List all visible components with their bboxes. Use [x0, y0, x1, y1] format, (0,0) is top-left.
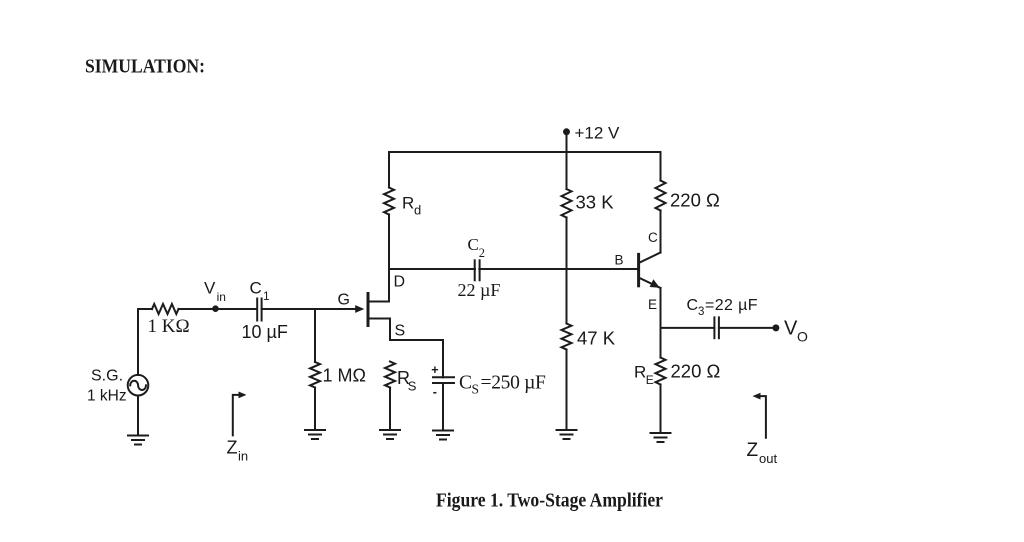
svg-text:D: D	[394, 274, 406, 291]
svg-text:E: E	[648, 297, 657, 312]
svg-text:3: 3	[698, 306, 704, 318]
node Vin dot	[212, 305, 219, 312]
resistor 1 MOhm	[310, 362, 320, 388]
transistor Q2 base bar	[637, 254, 640, 285]
emitter diagonal	[639, 278, 661, 289]
svg-text:R: R	[402, 194, 414, 213]
ground at 47K	[557, 430, 577, 439]
svg-text:C: C	[687, 297, 699, 314]
wire Rd to D node	[388, 215, 390, 270]
wire Cs branch	[442, 340, 444, 377]
svg-text:2: 2	[479, 246, 485, 260]
wire S.G. to 1K resistor	[138, 309, 152, 375]
svg-text:22 µF: 22 µF	[458, 280, 501, 300]
1 MOhm branch wire	[314, 309, 316, 362]
JFET drain lead	[368, 269, 389, 302]
svg-text:E: E	[646, 373, 654, 387]
svg-text:S: S	[472, 382, 480, 397]
svg-text:G: G	[338, 292, 350, 309]
wire rail to 220 ohm	[660, 152, 662, 181]
svg-text:V: V	[784, 318, 798, 340]
svg-text:1 KΩ: 1 KΩ	[148, 316, 190, 337]
svg-text:C: C	[459, 373, 472, 394]
resistor Rd	[384, 188, 394, 215]
wire RE to ground	[660, 385, 662, 434]
svg-text:in: in	[238, 449, 248, 464]
svg-text:C: C	[250, 279, 262, 298]
svg-text:Z: Z	[747, 440, 759, 461]
svg-text:B: B	[615, 253, 624, 268]
resistor 47K	[562, 324, 572, 350]
wire Rs to ground	[389, 388, 391, 431]
resistor Rs	[385, 362, 395, 388]
svg-text:1 MΩ: 1 MΩ	[323, 366, 366, 386]
resistor 220 ohm collector	[656, 181, 666, 211]
wire 1M to ground	[314, 388, 316, 431]
resistor 1 KOhm (horizontal)	[152, 304, 179, 314]
+12V node dot	[563, 128, 570, 135]
wire D node to C2	[389, 268, 475, 270]
svg-text:out: out	[759, 451, 777, 466]
wire 47K to ground	[566, 350, 568, 431]
resistor Rd branch from rail	[388, 152, 390, 188]
wire C2 to BJT base	[479, 268, 637, 270]
svg-text:Figure 1. Two-Stage Amplifier: Figure 1. Two-Stage Amplifier	[436, 490, 663, 512]
wire C1 to JFET gate	[262, 308, 356, 310]
ground at S.G.	[128, 436, 148, 445]
resistor 33K	[562, 189, 572, 218]
svg-text:220 Ω: 220 Ω	[671, 361, 721, 382]
+12V stub	[566, 132, 568, 152]
svg-text:47 K: 47 K	[577, 328, 616, 349]
ground at RE	[651, 433, 671, 442]
wire 1K to C1	[179, 308, 258, 310]
svg-text:33 K: 33 K	[576, 192, 615, 213]
svg-text:=250 µF: =250 µF	[481, 373, 547, 394]
svg-text:1 kHz: 1 kHz	[87, 388, 127, 405]
svg-text:+12 V: +12 V	[575, 123, 621, 142]
ground at Rs	[380, 430, 400, 439]
capacitor Cs plates	[433, 377, 454, 383]
resistor RE	[656, 358, 666, 385]
top rail +12V	[389, 151, 661, 153]
svg-text:in: in	[217, 290, 226, 304]
svg-text:S: S	[408, 379, 417, 394]
svg-text:1: 1	[263, 289, 270, 303]
svg-text:220 Ω: 220 Ω	[670, 190, 720, 211]
wire S.G. bottom to ground	[137, 396, 139, 436]
svg-text:V: V	[204, 279, 216, 298]
wire emitter to output node	[660, 288, 662, 358]
svg-text:SIMULATION:: SIMULATION:	[85, 56, 205, 78]
svg-text:S: S	[395, 323, 406, 340]
wire emitter node to C3	[661, 327, 715, 329]
wire source node to Cs	[390, 339, 443, 341]
JFET Q1 channel bar	[367, 294, 370, 326]
node Vo dot	[772, 324, 779, 331]
svg-text:=22 µF: =22 µF	[705, 297, 758, 314]
wire 220 to collector	[660, 211, 662, 253]
Zout arrow	[758, 396, 766, 438]
collector diagonal	[639, 253, 661, 264]
svg-text:C: C	[648, 230, 658, 245]
svg-text:-: -	[433, 385, 437, 399]
ground at 1M	[305, 430, 325, 439]
wire C3 to Vo	[719, 327, 776, 329]
capacitor C3	[714, 317, 719, 338]
svg-text:10 µF: 10 µF	[242, 322, 288, 342]
wire Cs to ground	[442, 383, 444, 431]
Zin arrow	[233, 395, 242, 436]
svg-text:+: +	[431, 363, 438, 377]
sine wave inside S.G.	[130, 381, 146, 390]
ground at Cs	[433, 431, 453, 440]
wire 33K through base node to 47K	[566, 218, 568, 324]
emitter arrowhead	[650, 279, 660, 288]
svg-text:d: d	[414, 203, 421, 218]
gate arrowhead	[355, 305, 364, 313]
svg-text:C: C	[468, 235, 479, 254]
svg-text:S.G.: S.G.	[91, 368, 123, 385]
svg-text:O: O	[797, 329, 808, 345]
wire rail to 33K	[566, 152, 568, 189]
signal generator S.G. circle	[128, 375, 149, 396]
capacitor C2	[475, 260, 480, 280]
svg-text:Z: Z	[227, 438, 238, 458]
JFET source lead	[368, 319, 390, 341]
capacitor C1	[257, 299, 261, 321]
svg-text:R: R	[634, 363, 646, 382]
